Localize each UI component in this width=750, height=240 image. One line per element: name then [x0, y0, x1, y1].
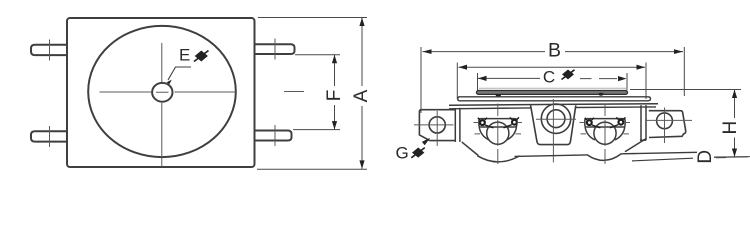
phi symbol for G: [411, 148, 425, 158]
dimension D tick line: [716, 157, 726, 159]
arrowheads A: [359, 18, 364, 169]
hub centerlines: [552, 99, 554, 162]
frame left end: [455, 108, 478, 156]
mounting lug top-right: [255, 44, 295, 54]
phi symbol for E: [194, 51, 209, 62]
svg-text:H: H: [720, 121, 741, 135]
leader arrowhead G: [422, 138, 430, 146]
arrowheads H: [732, 90, 737, 158]
mounting lug top-left: [31, 45, 67, 55]
svg-text:E: E: [179, 46, 190, 65]
mounting lug bottom-left: [31, 131, 67, 141]
lug centerline bottom-right: [274, 125, 276, 146]
svg-text:F: F: [324, 90, 345, 102]
circle horizontal centerline: [100, 91, 237, 93]
center swivel hub: [531, 104, 576, 145]
arrowheads F: [332, 55, 337, 130]
wheel bottom line extension: [632, 157, 748, 161]
leader for E: [168, 67, 191, 80]
axle bar: [481, 119, 515, 127]
lug centerline bottom-left: [49, 126, 51, 147]
wheel: [487, 122, 509, 144]
right wheel centerlines: [604, 104, 606, 165]
left wheel centerlines: [497, 104, 499, 165]
dimension B: [421, 47, 684, 113]
right bracket: [649, 111, 686, 138]
axle bolts left wheel: [478, 117, 519, 127]
svg-text:B: B: [548, 40, 561, 62]
turntable circle: [88, 26, 236, 157]
right wheel assembly: [585, 119, 625, 161]
mounting lug bottom-right: [255, 131, 292, 141]
lug centerline top-left: [49, 40, 51, 61]
flange arc: [587, 154, 622, 161]
top pad (bold strip): [477, 88, 628, 97]
top plate: [458, 97, 651, 101]
arrowheads C: [478, 76, 627, 81]
dimension A: [257, 18, 367, 170]
arrowheads plate width dim: [459, 65, 646, 70]
arrowheads B: [423, 49, 684, 54]
centerline dash right of body: [284, 91, 304, 93]
frame beam lower line: [449, 107, 656, 109]
lug centerline top-right: [274, 39, 276, 60]
left bracket centerlines: [414, 124, 454, 126]
frame beam top line: [449, 104, 658, 106]
svg-text:G: G: [396, 144, 409, 163]
dimension F: [293, 55, 340, 130]
dimension plate width (unlabeled): [457, 63, 646, 100]
right bracket centerlines: [645, 119, 692, 121]
yoke shoulders: [479, 127, 489, 140]
phi symbol for C: [562, 70, 575, 80]
leader arrowhead E: [167, 80, 172, 85]
center hole E: [152, 83, 172, 102]
left bracket: [419, 110, 455, 141]
axle bolts right wheel: [585, 117, 626, 127]
left wheel assembly: [477, 119, 519, 162]
circle vertical centerline: [161, 43, 163, 167]
label G dia: [396, 138, 431, 163]
body plate (front view): [67, 18, 255, 167]
wheel: [594, 122, 616, 144]
axle bar: [587, 119, 623, 127]
label E dia: [167, 46, 209, 85]
rail line: [515, 152, 698, 156]
svg-text:A: A: [351, 89, 372, 102]
dimension H: [630, 90, 750, 158]
svg-text:C: C: [543, 68, 555, 87]
svg-text:D: D: [695, 150, 716, 164]
dimension C dia: [478, 73, 628, 91]
flange arc: [477, 156, 519, 162]
frame right end: [625, 105, 646, 152]
yoke shoulders: [585, 127, 595, 140]
